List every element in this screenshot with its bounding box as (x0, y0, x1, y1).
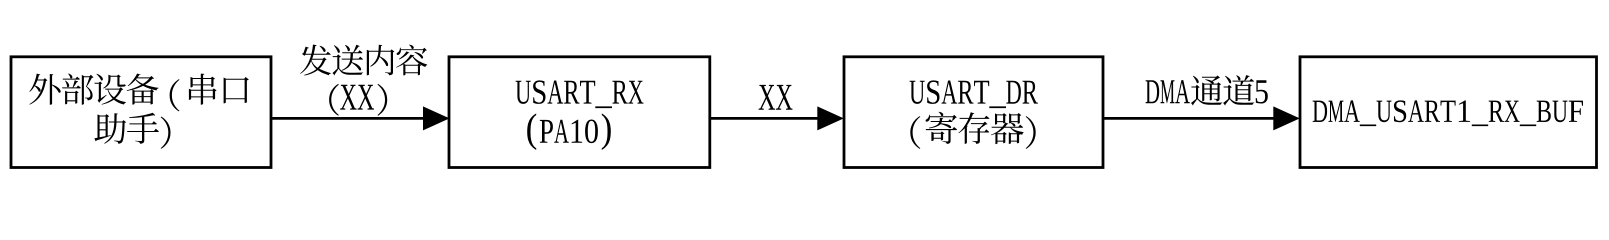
box B3 USART_DR (register) (844, 57, 1103, 168)
wire arrow3 B3 to B4 (1103, 117, 1277, 120)
label arrow3 DMA通道5 (1146, 75, 1268, 105)
label arrow2 XX (759, 85, 793, 110)
box B2 USART_RX (PA10) (449, 57, 710, 168)
label B2 line2 (PA10) (527, 113, 611, 150)
box B1 external device (serial assistant) (11, 57, 271, 168)
label B4 DMA_USART1_RX_BUF (1313, 100, 1583, 126)
box B4 DMA buffer (1300, 57, 1597, 168)
label arrow1 （XX） (329, 84, 387, 116)
wire arrow2 B2 to B3 (710, 117, 822, 120)
wire arrow1 B1 to B2 (271, 117, 427, 120)
label B1 line1 外部设备（串口 (29, 74, 248, 112)
label arrow1 发送内容 (300, 45, 427, 76)
label B3 line2 （寄存器） (910, 112, 1035, 149)
label B1 line2 助手） (94, 113, 170, 149)
label B2 line1 USART_RX (516, 80, 644, 108)
label B3 line1 USART_DR (910, 80, 1038, 108)
